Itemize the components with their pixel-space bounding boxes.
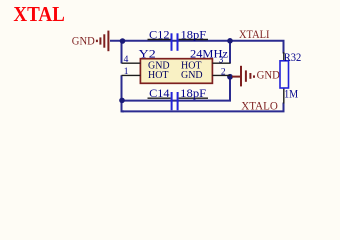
junction node pin2 [227,74,233,80]
svg-text:24MHz: 24MHz [190,48,228,60]
resistor R32 bottom pin [283,88,285,104]
junction node top-left [120,38,126,44]
crystal Y2 body [140,59,212,84]
crystal Y2 pin 3 [212,62,230,64]
svg-text:GND: GND [257,69,280,81]
svg-text:XTAL: XTAL [13,2,65,26]
ground GND left symbol [97,31,109,52]
capacitor C12 pins [148,39,209,41]
svg-text:R32: R32 [284,52,302,64]
capacitor C14 pins [148,97,209,99]
ground GND right stub [232,76,240,78]
crystal Y2 pin 2 [212,74,230,76]
svg-text:C14: C14 [149,88,170,100]
capacitor C14 plates [172,92,178,110]
svg-text:18pF: 18pF [180,88,206,100]
wire left rail lower segment [122,75,125,111]
svg-text:2: 2 [221,68,226,78]
capacitor C12 plates [172,33,178,51]
wire riser pin3 to top [229,41,231,64]
svg-text:GND: GND [181,69,203,81]
resistor R32 top pin [283,52,285,61]
crystal Y2 pin 1 [122,74,141,76]
junction node top pin3 [227,38,233,44]
junction node bottom-left [119,98,125,104]
svg-text:XTALO: XTALO [241,101,277,113]
svg-text:XTALI: XTALI [239,29,270,41]
svg-text:HOT: HOT [148,69,169,81]
wire pin2 down to C14 net [122,77,231,101]
wire bottom (net XTALO) [122,103,284,112]
crystal Y2 pin 4 [122,62,141,64]
svg-text:Y2: Y2 [139,48,156,60]
svg-text:C12: C12 [149,29,170,41]
svg-text:1M: 1M [284,89,298,101]
svg-text:GND: GND [72,35,95,47]
wire top (net XTALI) [110,41,284,54]
svg-text:1: 1 [124,67,129,77]
wire left rail upper segment [121,41,123,64]
ground GND right symbol [241,66,254,87]
svg-text:4: 4 [124,55,129,65]
resistor R32 body [280,61,289,88]
svg-text:18pF: 18pF [181,29,207,41]
